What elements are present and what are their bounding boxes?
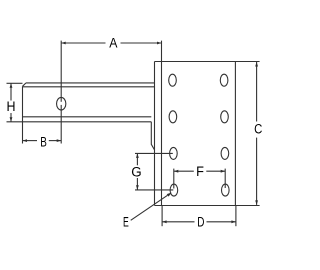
svg-text:G: G [131,165,141,181]
svg-text:F: F [196,164,204,180]
svg-text:A: A [109,35,118,51]
svg-text:D: D [197,214,204,230]
svg-text:H: H [7,99,16,115]
svg-text:E: E [123,214,129,230]
svg-text:B: B [40,134,47,150]
svg-text:C: C [254,122,262,138]
